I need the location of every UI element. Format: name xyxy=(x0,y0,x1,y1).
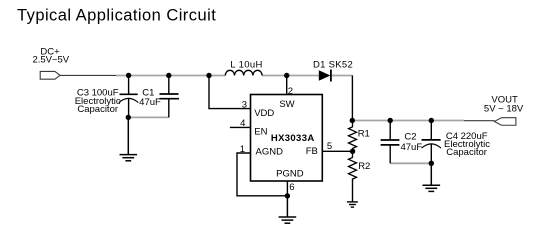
svg-text:R2: R2 xyxy=(358,161,370,172)
ground C4 xyxy=(423,163,441,191)
wire PGND leg xyxy=(286,181,288,196)
wire VDD tap xyxy=(209,76,251,109)
junction C2 top xyxy=(388,118,393,123)
ground C3/C1 xyxy=(120,117,138,160)
wire input lead xyxy=(60,74,116,76)
svg-text:6: 6 xyxy=(289,182,294,193)
label C2 xyxy=(400,131,422,152)
svg-text:AGND: AGND xyxy=(256,147,284,158)
diode D1 xyxy=(319,70,331,82)
junction C4 bottom xyxy=(429,161,434,166)
wire inductor to diode xyxy=(262,75,319,77)
svg-text:Capacitor: Capacitor xyxy=(77,104,118,115)
junction C1 top xyxy=(166,73,171,78)
svg-text:3: 3 xyxy=(242,99,247,110)
svg-text:5V ~ 18V: 5V ~ 18V xyxy=(484,103,524,114)
resistor R2 xyxy=(349,151,357,179)
wire AGND return xyxy=(237,153,287,196)
label C1 xyxy=(139,87,161,108)
svg-text:C2: C2 xyxy=(404,131,416,142)
wire EN stub xyxy=(230,126,251,128)
junction FB node xyxy=(350,149,355,154)
svg-text:R1: R1 xyxy=(358,128,370,139)
svg-text:SW: SW xyxy=(279,99,294,110)
port tag VOUT xyxy=(494,118,516,126)
junction C3 C1 bottom xyxy=(126,115,131,120)
svg-text:FB: FB xyxy=(306,146,318,157)
svg-text:47uF: 47uF xyxy=(400,142,422,153)
wire VOUT lead xyxy=(464,120,494,122)
node VOUT label xyxy=(484,95,524,115)
op-amp U1 HX3033A box xyxy=(251,95,323,182)
svg-text:5: 5 xyxy=(327,141,332,152)
wire C2 C4 bottom net xyxy=(390,162,431,164)
junction C3 top xyxy=(126,73,131,78)
capacitor C4 xyxy=(422,121,442,164)
label C3 xyxy=(75,88,121,116)
svg-text:Capacitor: Capacitor xyxy=(446,147,487,158)
svg-text:D1 SK52: D1 SK52 xyxy=(313,60,353,71)
svg-text:HX3033A: HX3033A xyxy=(271,133,315,144)
inductor L1 xyxy=(225,70,262,75)
wire corner down to output rail xyxy=(351,76,353,121)
capacitor C3 xyxy=(119,76,138,118)
capacitor C1 xyxy=(160,76,180,118)
svg-text:L 10uH: L 10uH xyxy=(230,59,262,70)
capacitor C2 xyxy=(381,121,400,164)
svg-text:2.5V~5V: 2.5V~5V xyxy=(32,54,69,65)
wire FB xyxy=(322,150,352,152)
resistor R1 xyxy=(349,121,357,152)
wire diode to corner xyxy=(332,75,353,77)
wire output rail xyxy=(352,120,464,122)
wire SW leg xyxy=(286,76,288,95)
ground PGND xyxy=(279,196,297,223)
node DC+ input label xyxy=(32,46,69,65)
label C4 xyxy=(444,131,490,158)
junction rail R1 xyxy=(350,118,355,123)
svg-text:47uF: 47uF xyxy=(139,97,161,108)
junction PGND xyxy=(285,193,290,198)
junction C4 top xyxy=(429,118,434,123)
wire main top net (DC to inductor) xyxy=(116,75,225,77)
svg-text:4: 4 xyxy=(240,118,245,129)
junction SW tap xyxy=(284,73,289,78)
wire C3 C1 bottom net xyxy=(128,116,169,118)
svg-text:VDD: VDD xyxy=(254,108,274,119)
ground R2 xyxy=(347,179,358,207)
svg-text:Typical Application Circuit: Typical Application Circuit xyxy=(17,7,216,25)
svg-text:2: 2 xyxy=(288,86,293,97)
svg-text:EN: EN xyxy=(254,126,267,137)
junction VDD tap xyxy=(206,73,211,78)
svg-text:PGND: PGND xyxy=(276,168,304,179)
port tag DC+ xyxy=(40,71,60,79)
